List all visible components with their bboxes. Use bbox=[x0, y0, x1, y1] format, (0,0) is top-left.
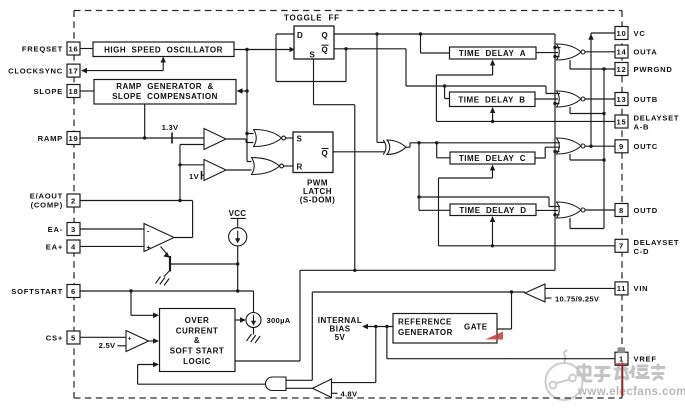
svg-text:PWRGND: PWRGND bbox=[634, 65, 673, 74]
pin 14 OUTA bbox=[615, 45, 657, 58]
wire NOR G4 to OUTA bbox=[585, 51, 615, 53]
svg-text:CURRENT: CURRENT bbox=[176, 327, 219, 336]
svg-text:RAMP: RAMP bbox=[38, 134, 63, 143]
svg-text:VCC: VCC bbox=[229, 209, 247, 218]
label 1V bbox=[189, 172, 200, 181]
wire toggle FF Qbar to D feedback bbox=[276, 34, 348, 82]
wire fault line to disable bus bbox=[300, 269, 555, 272]
svg-text:TIME DELAY C: TIME DELAY C bbox=[459, 154, 526, 163]
wire toggle FF S to fault line bbox=[314, 59, 355, 270]
ground (transistor emitter) bbox=[156, 277, 170, 286]
wire AND G8 output to OC logic bbox=[138, 362, 266, 385]
wire RAMP with 1.3V offset bbox=[80, 133, 204, 144]
svg-text:www.elecfans.com: www.elecfans.com bbox=[577, 386, 685, 398]
wire time delay B output to NOR G5 bbox=[535, 98, 558, 100]
label 2.5V bbox=[99, 341, 116, 350]
WATERMARK bbox=[546, 350, 685, 400]
label 300uA bbox=[267, 316, 291, 325]
wire driver D ground rail bbox=[570, 218, 604, 229]
time delay A block bbox=[450, 47, 537, 59]
svg-text:6: 6 bbox=[71, 287, 76, 296]
svg-text:&: & bbox=[194, 336, 200, 345]
svg-text:8: 8 bbox=[619, 206, 624, 215]
svg-text:5V: 5V bbox=[335, 333, 346, 342]
wire reference generator to internal bias bbox=[362, 324, 393, 330]
svg-text:2.5V: 2.5V bbox=[99, 341, 116, 350]
svg-text:TOGGLE FF: TOGGLE FF bbox=[284, 14, 340, 23]
svg-text:SOFTSTART: SOFTSTART bbox=[11, 287, 63, 296]
pin 4 EA+ bbox=[46, 240, 80, 253]
wire branch into time delay B bbox=[445, 86, 450, 99]
svg-text:Q: Q bbox=[322, 31, 329, 40]
svg-text:15: 15 bbox=[617, 117, 627, 126]
svg-text:2: 2 bbox=[71, 196, 76, 205]
svg-text:EA-: EA- bbox=[48, 225, 63, 234]
wire Qbar to time delay B and NOR G5 bbox=[346, 49, 560, 94]
wire UVLO output to AND G8 bbox=[286, 290, 525, 380]
wire EA output to PWM comparators bbox=[178, 145, 204, 201]
svg-text:A-B: A-B bbox=[634, 123, 650, 132]
pin 10 VC bbox=[615, 27, 646, 40]
wire NOR G5 to OUTB bbox=[585, 98, 615, 100]
red mark at reference generator corner bbox=[485, 332, 503, 340]
wire XOR output to time delay C bbox=[437, 143, 450, 158]
wire transistor base to current source node bbox=[171, 262, 239, 265]
IC boundary dashed border bbox=[74, 11, 622, 399]
wire NOR G2 to latch R bbox=[283, 165, 293, 167]
wire OC logic to 300uA source bbox=[235, 317, 246, 323]
wire XOR output to NOR G6 bbox=[405, 141, 560, 147]
svg-text:S: S bbox=[297, 135, 303, 144]
wire EA+ input bbox=[80, 245, 144, 247]
svg-text:13: 13 bbox=[617, 95, 627, 104]
wire EA- input bbox=[80, 228, 144, 230]
pin 15 DELAYSET A-B bbox=[615, 114, 679, 132]
svg-text:SLOPE: SLOPE bbox=[34, 87, 64, 96]
svg-text:+: + bbox=[147, 245, 151, 252]
wire 4.8V reference stub bbox=[332, 392, 338, 394]
svg-text:CLOCKSYNC: CLOCKSYNC bbox=[8, 66, 63, 75]
svg-text:10.75/9.25V: 10.75/9.25V bbox=[555, 294, 600, 303]
wire UVLO threshold stub bbox=[545, 297, 552, 299]
svg-text:LOGIC: LOGIC bbox=[183, 357, 211, 366]
toggle FF U1 bbox=[284, 14, 340, 60]
svg-text:14: 14 bbox=[617, 47, 627, 56]
svg-text:D: D bbox=[297, 31, 303, 40]
wire SOFTSTART bbox=[80, 289, 254, 312]
wire comparator A2 to NOR G2 bbox=[226, 169, 252, 171]
wire VC pin and VC bus bbox=[588, 33, 615, 146]
wire UVLO gate to reference generator bbox=[497, 292, 512, 329]
transistor Q1 (soft start clamp) bbox=[161, 247, 171, 277]
pin 7 DELAYSET C-D bbox=[615, 238, 679, 256]
current source I2 (300uA soft start) bbox=[246, 313, 261, 328]
comparator A2 (1V comparator) bbox=[204, 160, 226, 181]
comparator A5 (4.8V reference OK) bbox=[313, 379, 332, 398]
svg-text:E/AOUT: E/AOUT bbox=[30, 192, 63, 201]
pin 17 CLOCKSYNC bbox=[8, 64, 80, 77]
wire driver C ground rail bbox=[570, 154, 606, 162]
svg-text:OUTB: OUTB bbox=[634, 95, 659, 104]
wire clock bus to ramp generator bbox=[237, 88, 249, 94]
wire DELAYSET A-B bbox=[436, 60, 615, 124]
wire XOR output to time delay D and NOR G7 bbox=[417, 143, 560, 211]
wire CS+ input bbox=[80, 336, 126, 338]
svg-text:CS+: CS+ bbox=[46, 333, 63, 342]
PWM latch (S-DOM) U2 bbox=[293, 132, 335, 205]
wire OC logic fault output riser bbox=[235, 270, 300, 361]
svg-text:SOFT START: SOFT START bbox=[170, 347, 225, 356]
wire bias to 4.8V comparator bbox=[332, 327, 376, 383]
NOR gate G5 (OUTB driver) bbox=[557, 91, 586, 107]
wire PWRGND pin bbox=[570, 60, 615, 71]
pin 13 OUTB bbox=[615, 93, 658, 106]
wire time delay C output to NOR G6 bbox=[535, 147, 560, 158]
NOR gate G4 (OUTA driver) bbox=[557, 44, 586, 60]
wire NOR G6 to OUTC bbox=[585, 145, 615, 148]
wire SLOPE to ramp generator bbox=[80, 90, 94, 92]
comparator A1 (ramp PWM comparator) bbox=[204, 129, 226, 150]
wire VIN to UVLO comparator bbox=[545, 287, 615, 289]
wire 4.8V comparator to AND G8 bbox=[286, 387, 313, 389]
pin 19 RAMP bbox=[38, 132, 80, 145]
wire time delay A output to NOR G4 bbox=[536, 52, 558, 54]
svg-text:HIGH SPEED OSCILLATOR: HIGH SPEED OSCILLATOR bbox=[104, 45, 223, 54]
svg-text:TIME DELAY A: TIME DELAY A bbox=[459, 49, 526, 58]
svg-text:Q: Q bbox=[322, 46, 329, 55]
wire reference to VREF pin bbox=[387, 327, 615, 359]
pin 16 FREQSET bbox=[22, 42, 80, 55]
wire CLOCKSYNC from oscillator bbox=[81, 57, 166, 74]
svg-text:7: 7 bbox=[619, 242, 624, 251]
current source I1 (VCC) bbox=[229, 218, 247, 246]
pin 3 EA- bbox=[48, 223, 80, 236]
svg-text:OVER: OVER bbox=[185, 316, 210, 325]
wire 300uA source to ground bbox=[253, 328, 255, 335]
svg-text:GENERATOR: GENERATOR bbox=[398, 328, 453, 337]
pin 8 OUTD bbox=[615, 204, 658, 217]
pin 6 SOFTSTART bbox=[11, 285, 80, 298]
NOR gate G2 (reset) bbox=[252, 158, 284, 175]
NOR gate G1 (set) bbox=[254, 130, 286, 147]
svg-text:REFERENCE: REFERENCE bbox=[398, 318, 452, 327]
svg-text:GATE: GATE bbox=[464, 323, 488, 332]
svg-text:4.8V: 4.8V bbox=[341, 389, 358, 398]
ramp generator and slope compensation block bbox=[94, 80, 236, 105]
time delay B block bbox=[450, 92, 536, 107]
wire softstart to OC logic bbox=[131, 291, 159, 318]
svg-text:VIN: VIN bbox=[634, 284, 649, 293]
pin 5 CS+ bbox=[46, 331, 80, 344]
svg-text:R: R bbox=[297, 163, 303, 172]
svg-text:DELAYSET: DELAYSET bbox=[634, 114, 680, 123]
wire NOR G7 to OUTD bbox=[585, 209, 615, 211]
svg-text:OUTC: OUTC bbox=[634, 142, 659, 151]
time delay D block bbox=[450, 204, 536, 216]
svg-text:Q: Q bbox=[322, 149, 329, 158]
svg-text:5: 5 bbox=[71, 333, 76, 342]
NOR gate G6 (OUTC driver) bbox=[557, 138, 586, 154]
wire oscillator output to toggle FF clock bbox=[234, 48, 290, 51]
time delay C block bbox=[450, 152, 535, 164]
svg-text:VREF: VREF bbox=[634, 355, 657, 364]
pin 18 SLOPE bbox=[34, 85, 81, 98]
wire 2.5V reference stub bbox=[118, 345, 127, 347]
pin 11 VIN bbox=[615, 282, 648, 295]
NOR gate G7 (OUTD driver) bbox=[557, 202, 586, 218]
svg-text:DELAYSET: DELAYSET bbox=[634, 238, 680, 247]
wire toggle FF Q output bbox=[334, 32, 555, 35]
wire PWM latch Qbar to XOR G3 bbox=[333, 151, 385, 153]
pin 9 OUTC bbox=[615, 140, 658, 153]
wire PWRGND bus bbox=[603, 69, 605, 229]
wire 1V offset to comparator A2 bbox=[202, 171, 205, 180]
svg-text:OUTD: OUTD bbox=[634, 206, 659, 215]
svg-text:EA+: EA+ bbox=[46, 242, 63, 251]
reference generator block with GATE input bbox=[393, 314, 497, 344]
wire VCC current source to softstart line bbox=[236, 246, 239, 293]
svg-text:FREQSET: FREQSET bbox=[22, 44, 63, 53]
svg-text:TIME DELAY B: TIME DELAY B bbox=[458, 96, 525, 105]
svg-text:VC: VC bbox=[634, 29, 646, 38]
svg-text:(COMP): (COMP) bbox=[31, 201, 63, 210]
comparator A3 (current sense 2.5V) bbox=[126, 331, 149, 352]
svg-text:1: 1 bbox=[619, 355, 624, 364]
svg-text:C-D: C-D bbox=[634, 247, 650, 256]
gray square above VREF pin bbox=[618, 347, 626, 353]
label 4.8V bbox=[341, 389, 358, 398]
wire output disable bus bbox=[553, 34, 560, 270]
svg-text:11: 11 bbox=[617, 284, 627, 293]
svg-text:4: 4 bbox=[71, 242, 76, 251]
wire NOR G1 to latch S bbox=[285, 137, 293, 139]
label 1.3V bbox=[162, 123, 179, 132]
pin 2 E/AOUT (COMP) bbox=[30, 192, 80, 210]
svg-text:+: + bbox=[128, 336, 132, 343]
comparator A4 (UVLO 10.75/9.25V) bbox=[525, 284, 545, 302]
wire clock bus bbox=[245, 50, 253, 162]
svg-text:9: 9 bbox=[619, 142, 624, 151]
svg-text:19: 19 bbox=[69, 134, 79, 143]
wire comparator A3 to OC logic bbox=[149, 338, 159, 344]
svg-text:300µA: 300µA bbox=[267, 316, 291, 325]
wire Q to time delay A bbox=[421, 34, 450, 53]
wire DELAYSET C-D bbox=[439, 165, 616, 248]
svg-text:18: 18 bbox=[69, 87, 79, 96]
wire ramp generator to ramp line bbox=[144, 104, 146, 138]
svg-text:1V: 1V bbox=[189, 172, 200, 181]
pin 12 PWRGND bbox=[615, 63, 673, 76]
svg-text:SLOPE COMPENSATION: SLOPE COMPENSATION bbox=[112, 92, 218, 101]
wire driver B ground rail bbox=[570, 107, 606, 115]
wire comparator A1 to NOR G1 bbox=[226, 139, 254, 143]
pin 1 VREF bbox=[615, 352, 657, 365]
svg-text:1.3V: 1.3V bbox=[162, 123, 179, 132]
label VCC bbox=[229, 209, 247, 218]
AND gate G8 (fault gate) bbox=[265, 377, 286, 391]
svg-text:(S-DOM): (S-DOM) bbox=[300, 196, 336, 205]
wire FREQSET to oscillator bbox=[80, 48, 93, 50]
svg-text:10: 10 bbox=[617, 29, 627, 38]
svg-text:OUTA: OUTA bbox=[634, 47, 658, 56]
svg-text:3: 3 bbox=[71, 225, 76, 234]
svg-text:S: S bbox=[310, 51, 316, 60]
over current and soft start logic block bbox=[160, 309, 236, 372]
error amplifier EA bbox=[144, 224, 174, 253]
XOR gate G3 (phase shift) bbox=[383, 140, 406, 155]
svg-text:12: 12 bbox=[617, 65, 627, 74]
svg-text:RAMP GENERATOR &: RAMP GENERATOR & bbox=[116, 82, 214, 91]
ground (300uA source) bbox=[247, 334, 261, 343]
wire E/AOUT COMP node bbox=[80, 199, 193, 238]
wire time delay D output to NOR G7 bbox=[536, 209, 558, 211]
svg-text:17: 17 bbox=[69, 66, 79, 75]
internal bias 5V label bbox=[318, 316, 362, 342]
svg-text:16: 16 bbox=[69, 44, 79, 53]
label 10.75/9.25V bbox=[555, 294, 600, 303]
wire Q to XOR G3 bbox=[377, 34, 385, 142]
high speed oscillator block bbox=[93, 42, 234, 57]
svg-text:TIME DELAY D: TIME DELAY D bbox=[459, 206, 526, 215]
red mark at VREF pin bbox=[615, 363, 628, 397]
